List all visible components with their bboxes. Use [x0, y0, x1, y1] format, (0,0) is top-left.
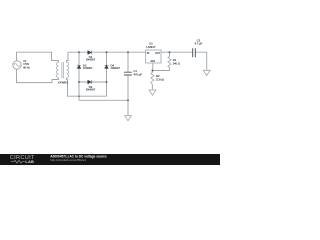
logo zigzag: [11, 160, 25, 163]
wire C1 rail: [127, 52, 129, 115]
voltage regulator U1 LM317: [146, 50, 162, 63]
wire secondary bottom to node B: [67, 78, 107, 96]
transformer XFMR1: [57, 62, 59, 77]
pin labels: [147, 52, 161, 63]
ground R2: [149, 90, 156, 95]
ground C2: [203, 70, 210, 75]
capacitor C2 plates: [193, 48, 196, 57]
svg-text:240 Ω: 240 Ω: [173, 62, 180, 66]
diode D1 top: [88, 51, 92, 55]
wire secondary top: [67, 52, 68, 62]
diode D3 middle: [88, 80, 92, 84]
wire ADJ: [151, 63, 153, 90]
diode D2 left rail: [77, 66, 81, 69]
svg-text:ADJ: ADJ: [151, 60, 156, 63]
svg-text:1N4007: 1N4007: [86, 58, 96, 62]
svg-text:1N4007: 1N4007: [111, 66, 121, 70]
svg-text:3.3 kΩ: 3.3 kΩ: [156, 77, 164, 81]
svg-text:1N4007: 1N4007: [83, 66, 93, 70]
svg-text:4.7 µF: 4.7 µF: [195, 42, 203, 46]
svg-text:XFMR1: XFMR1: [58, 80, 69, 84]
node dots: [78, 51, 80, 53]
wire left bridge rail: [78, 52, 80, 100]
svg-text:http://circuitlab.com/c/f5b2e4: http://circuitlab.com/c/f5b2e4: [50, 158, 86, 162]
resistor R1: [168, 57, 171, 68]
svg-text:IN: IN: [147, 52, 150, 55]
wire regulator out: [161, 51, 193, 53]
resistor R2: [151, 73, 154, 85]
capacitor C1 plates: [124, 72, 132, 75]
diode D4 right rail: [105, 66, 109, 69]
watermark bar: [0, 154, 220, 165]
wire primary loop bottom: [17, 69, 59, 82]
wire bridge middle: [79, 81, 107, 83]
wire primary loop top: [17, 52, 59, 62]
wire top rail to regulator: [68, 51, 146, 53]
svg-text:OUT: OUT: [155, 52, 161, 55]
svg-text:60 Hz: 60 Hz: [23, 66, 30, 69]
svg-text:R1: R1: [173, 58, 177, 62]
voltage source V1: [13, 61, 21, 69]
wire R1 leads: [152, 52, 169, 70]
wire ground bus: [79, 99, 128, 101]
label V1: [23, 60, 30, 69]
wire after C2 to ground: [195, 52, 206, 70]
svg-text:LAB: LAB: [25, 159, 34, 164]
svg-text:R2: R2: [156, 74, 160, 78]
wire right bridge rail: [106, 52, 108, 96]
svg-text:470 µF: 470 µF: [134, 72, 143, 76]
ground main: [125, 116, 132, 121]
svg-text:1N4007: 1N4007: [86, 87, 96, 91]
svg-text:LM317: LM317: [146, 45, 156, 49]
svg-text:C1: C1: [134, 69, 138, 73]
